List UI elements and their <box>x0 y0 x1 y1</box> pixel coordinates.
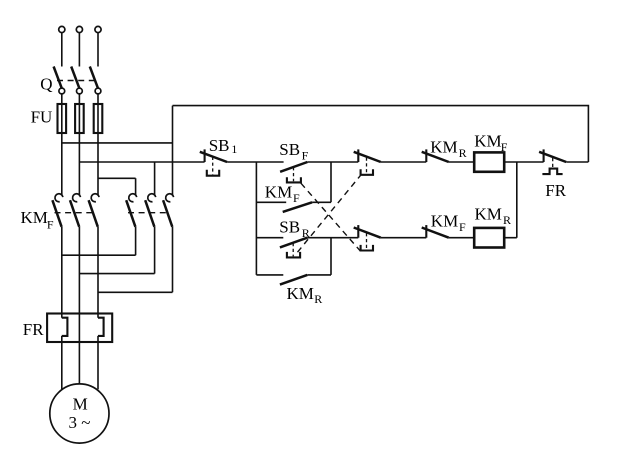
svg-text:SB: SB <box>279 140 300 159</box>
svg-text:KM: KM <box>21 208 48 227</box>
svg-text:R: R <box>503 213 511 227</box>
svg-text:R: R <box>302 226 310 240</box>
svg-text:Q: Q <box>40 74 52 93</box>
svg-text:FU: FU <box>31 108 53 127</box>
svg-text:F: F <box>501 140 508 154</box>
svg-text:SB: SB <box>209 136 230 155</box>
svg-text:M: M <box>73 394 88 413</box>
svg-text:R: R <box>459 146 467 160</box>
svg-text:F: F <box>302 148 309 162</box>
svg-text:FR: FR <box>23 320 44 339</box>
svg-text:F: F <box>47 217 54 231</box>
svg-text:F: F <box>459 220 466 234</box>
svg-text:KM: KM <box>287 284 314 303</box>
svg-text:1: 1 <box>231 142 237 156</box>
svg-text:3 ~: 3 ~ <box>69 413 91 432</box>
svg-text:FR: FR <box>545 181 566 200</box>
svg-text:R: R <box>314 292 322 306</box>
svg-text:KM: KM <box>474 132 501 151</box>
svg-text:F: F <box>293 191 300 205</box>
svg-text:KM: KM <box>431 211 458 230</box>
svg-text:KM: KM <box>430 137 457 156</box>
svg-text:KM: KM <box>475 205 502 224</box>
svg-text:KM: KM <box>265 183 292 202</box>
svg-text:SB: SB <box>279 218 300 237</box>
